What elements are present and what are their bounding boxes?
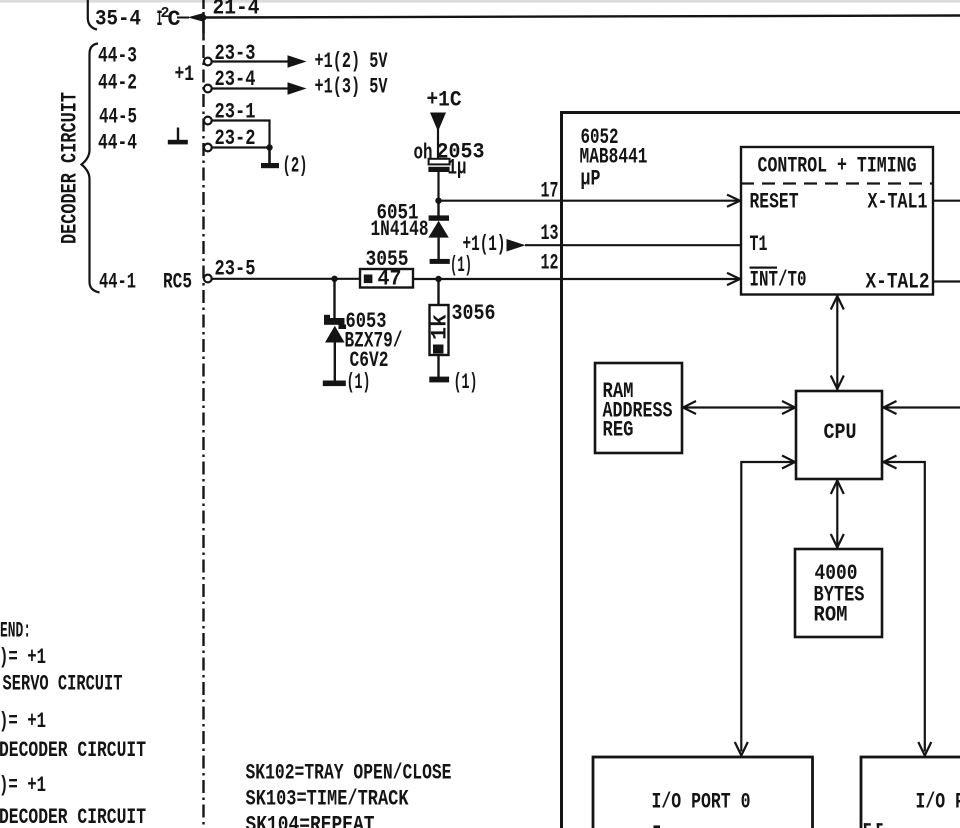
- svg-text:35-4: 35-4: [95, 7, 141, 32]
- svg-text:X-TAL1: X-TAL1: [868, 190, 928, 215]
- svg-text:13: 13: [541, 221, 559, 246]
- svg-text:44-3: 44-3: [98, 44, 137, 69]
- node zener junction: [331, 276, 337, 282]
- svg-text:SK103=TIME/TRACK: SK103=TIME/TRACK: [246, 787, 410, 812]
- node 3056 junction: [435, 276, 441, 282]
- wire X-TAL1: [933, 200, 960, 202]
- svg-text:INT/T0: INT/T0: [750, 268, 807, 293]
- svg-text:I/O PORT 0: I/O PORT 0: [652, 790, 751, 815]
- pin 23-4: [204, 67, 256, 92]
- resistor 3056: [428, 279, 453, 377]
- wire RC5 to resistor: [212, 278, 360, 280]
- wire 21-4 horizontal: [204, 16, 960, 18]
- svg-text:1µ: 1µ: [448, 156, 467, 181]
- bracket 35-4: [88, 0, 97, 30]
- svg-text:+1(3) 5V: +1(3) 5V: [315, 75, 389, 100]
- arrow down into ROM: [831, 534, 844, 548]
- svg-text:)= +1: )= +1: [0, 709, 46, 734]
- ground (2): [261, 148, 279, 169]
- svg-text:RESET: RESET: [750, 190, 799, 215]
- svg-text:CONTROL + TIMING: CONTROL + TIMING: [758, 154, 917, 179]
- arrow into CPU lower left: [782, 456, 795, 469]
- arrow INT/T0 entry: [727, 273, 740, 285]
- svg-text:(1): (1): [347, 370, 371, 395]
- svg-text:)= +1: )= +1: [0, 773, 46, 798]
- box RAM ADDRESS REG: [595, 363, 682, 453]
- svg-text:DECODER CIRCUIT: DECODER CIRCUIT: [58, 92, 83, 244]
- arrow up into CT: [831, 296, 844, 310]
- svg-text:+1(2) 5V: +1(2) 5V: [315, 49, 389, 74]
- svg-text:)= +1: )= +1: [0, 645, 46, 670]
- wire 12 INT/T0: [413, 278, 740, 280]
- svg-text:1N4148: 1N4148: [371, 217, 429, 242]
- wire CPU right data: [882, 406, 960, 408]
- node 17 junction: [435, 198, 441, 204]
- svg-text:44-2: 44-2: [98, 71, 137, 96]
- svg-text:+1(1): +1(1): [463, 232, 506, 257]
- partial glyph marks bottom: [654, 823, 883, 828]
- arrow down into CPU: [831, 376, 844, 390]
- svg-text:CPU: CPU: [824, 420, 857, 445]
- pin 23-5: [204, 257, 256, 283]
- arrow into CPU lower right: [884, 456, 897, 469]
- arrow into IO port 1: [918, 742, 931, 756]
- resistor 3055: [360, 247, 413, 292]
- wire 23-1 loop: [212, 121, 270, 148]
- svg-text:(1): (1): [454, 370, 478, 395]
- node I2C junction: [201, 15, 207, 21]
- svg-text:X-TAL2: X-TAL2: [866, 270, 930, 295]
- svg-text:DECODER CIRCUIT: DECODER CIRCUIT: [0, 805, 146, 828]
- svg-text:17: 17: [541, 179, 559, 204]
- svg-text:1k: 1k: [428, 314, 453, 340]
- wire X-TAL2: [933, 280, 960, 282]
- svg-text:ROM: ROM: [814, 603, 848, 628]
- box 4000 BYTES ROM: [795, 549, 882, 637]
- arrow up into CPU bottom: [831, 481, 844, 495]
- svg-text:(2): (2): [283, 154, 308, 179]
- wire 17 RESET: [439, 200, 740, 202]
- diode 6051: [428, 201, 449, 260]
- svg-text:+1C: +1C: [427, 88, 462, 113]
- box I/O PORT 0: [593, 757, 813, 828]
- svg-text:SK102=TRAY OPEN/CLOSE: SK102=TRAY OPEN/CLOSE: [246, 761, 452, 786]
- arrow into CPU right: [884, 401, 897, 414]
- arrow +1C down: [430, 113, 446, 132]
- svg-text:12: 12: [541, 251, 559, 276]
- box I/O PORT 1: [861, 757, 960, 828]
- wire cap to node: [437, 172, 439, 201]
- arrow I2C left: [188, 13, 203, 21]
- svg-text:3056: 3056: [452, 301, 496, 326]
- svg-text:µP: µP: [581, 167, 601, 192]
- svg-text:RC5: RC5: [163, 270, 192, 295]
- wire I2C stub: [177, 17, 189, 19]
- arrow +1(3): [288, 82, 307, 95]
- arrow +1(2): [288, 55, 307, 68]
- svg-text:REG: REG: [603, 418, 634, 443]
- node 23-2 junction: [266, 144, 272, 150]
- wire CT to CPU: [836, 295, 838, 391]
- ground zener (1): [323, 381, 346, 387]
- svg-text:END:: END:: [0, 619, 31, 644]
- svg-text:+1: +1: [175, 62, 195, 87]
- wire 23-4: [212, 87, 289, 89]
- arrow +1(1) right: [507, 239, 526, 252]
- svg-text:C6V2: C6V2: [350, 348, 389, 373]
- rail bar +1(1): [430, 259, 450, 264]
- wire CPU to IO port 1: [882, 462, 925, 752]
- svg-text:44-5: 44-5: [99, 105, 137, 130]
- svg-text:44-1: 44-1: [99, 270, 136, 295]
- block uP 6052 border: [562, 113, 960, 828]
- pin 23-1: [204, 100, 256, 125]
- box CONTROL + TIMING: [741, 147, 933, 295]
- pin 23-3: [204, 41, 256, 66]
- wire I2C vertical solid segment: [202, 12, 204, 39]
- dashed divider: [741, 182, 933, 184]
- zener 6053: [324, 279, 346, 381]
- wire RAM to CPU: [682, 406, 796, 408]
- svg-text:21-4: 21-4: [213, 0, 260, 21]
- svg-text:SK104=REPEAT: SK104=REPEAT: [246, 813, 375, 828]
- label I2C: [157, 5, 181, 32]
- wire 23-3: [212, 60, 289, 62]
- ground legend symbol: [168, 128, 188, 145]
- svg-text:DECODER CIRCUIT: DECODER CIRCUIT: [0, 738, 146, 763]
- svg-text:C: C: [168, 7, 181, 32]
- brace decoder circuit: [82, 44, 100, 293]
- pin 23-2: [204, 126, 256, 151]
- arrow RESET entry: [727, 195, 740, 207]
- arrow into CPU left: [782, 401, 795, 414]
- box CPU: [796, 391, 882, 479]
- wire +1C to cap: [437, 129, 439, 159]
- arrow into RAM: [683, 401, 696, 414]
- wire CPU to IO port 0: [741, 462, 796, 752]
- arrow into IO port 0: [735, 742, 748, 756]
- wire 13 T1: [525, 244, 741, 246]
- svg-text:47: 47: [378, 267, 402, 292]
- net I2C bus dash-dot line: [202, 0, 204, 828]
- ground 3056 (1): [429, 377, 449, 383]
- wire CPU to ROM: [836, 479, 838, 549]
- pin INT/T0 overline: [750, 267, 778, 269]
- svg-text:44-4: 44-4: [98, 131, 137, 156]
- svg-text:I/O PORT 1: I/O PORT 1: [916, 790, 960, 815]
- scan edge band: [0, 0, 960, 3]
- capacitor 2053: [428, 159, 449, 172]
- svg-text:T1: T1: [750, 232, 768, 257]
- svg-text:SERVO CIRCUIT: SERVO CIRCUIT: [3, 672, 123, 697]
